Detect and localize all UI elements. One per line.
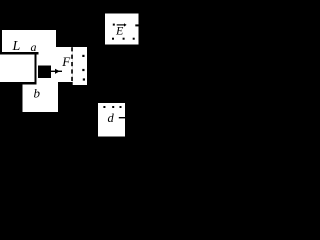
box bottom border — [0, 82, 37, 85]
top-right legend box — [105, 14, 139, 45]
legend box dots — [112, 24, 139, 40]
svg-text:L: L — [12, 39, 21, 54]
bottom box dots — [103, 106, 121, 108]
white b label patch — [23, 85, 59, 113]
dimension line right of d — [119, 117, 125, 118]
white box interior patch — [0, 52, 73, 82]
force arrow head — [55, 69, 60, 74]
dashed boundary line — [71, 47, 73, 81]
field dots in strip — [82, 55, 85, 81]
svg-text:d: d — [108, 111, 115, 125]
white field strip patch — [73, 47, 87, 85]
box right border — [35, 55, 37, 83]
white bridge below box right — [37, 80, 59, 85]
box top border — [0, 52, 39, 55]
black block on box right side — [38, 66, 51, 79]
svg-text:b: b — [34, 86, 41, 101]
white F-region top patch — [56, 47, 73, 53]
svg-text:a: a — [31, 40, 37, 54]
vector arrow over E — [117, 24, 124, 25]
white band patch with L and a labels — [2, 30, 56, 52]
force arrow shaft — [51, 71, 62, 72]
svg-text:E: E — [115, 24, 124, 38]
svg-text:F: F — [61, 54, 71, 69]
bottom-right legend box — [98, 103, 125, 137]
